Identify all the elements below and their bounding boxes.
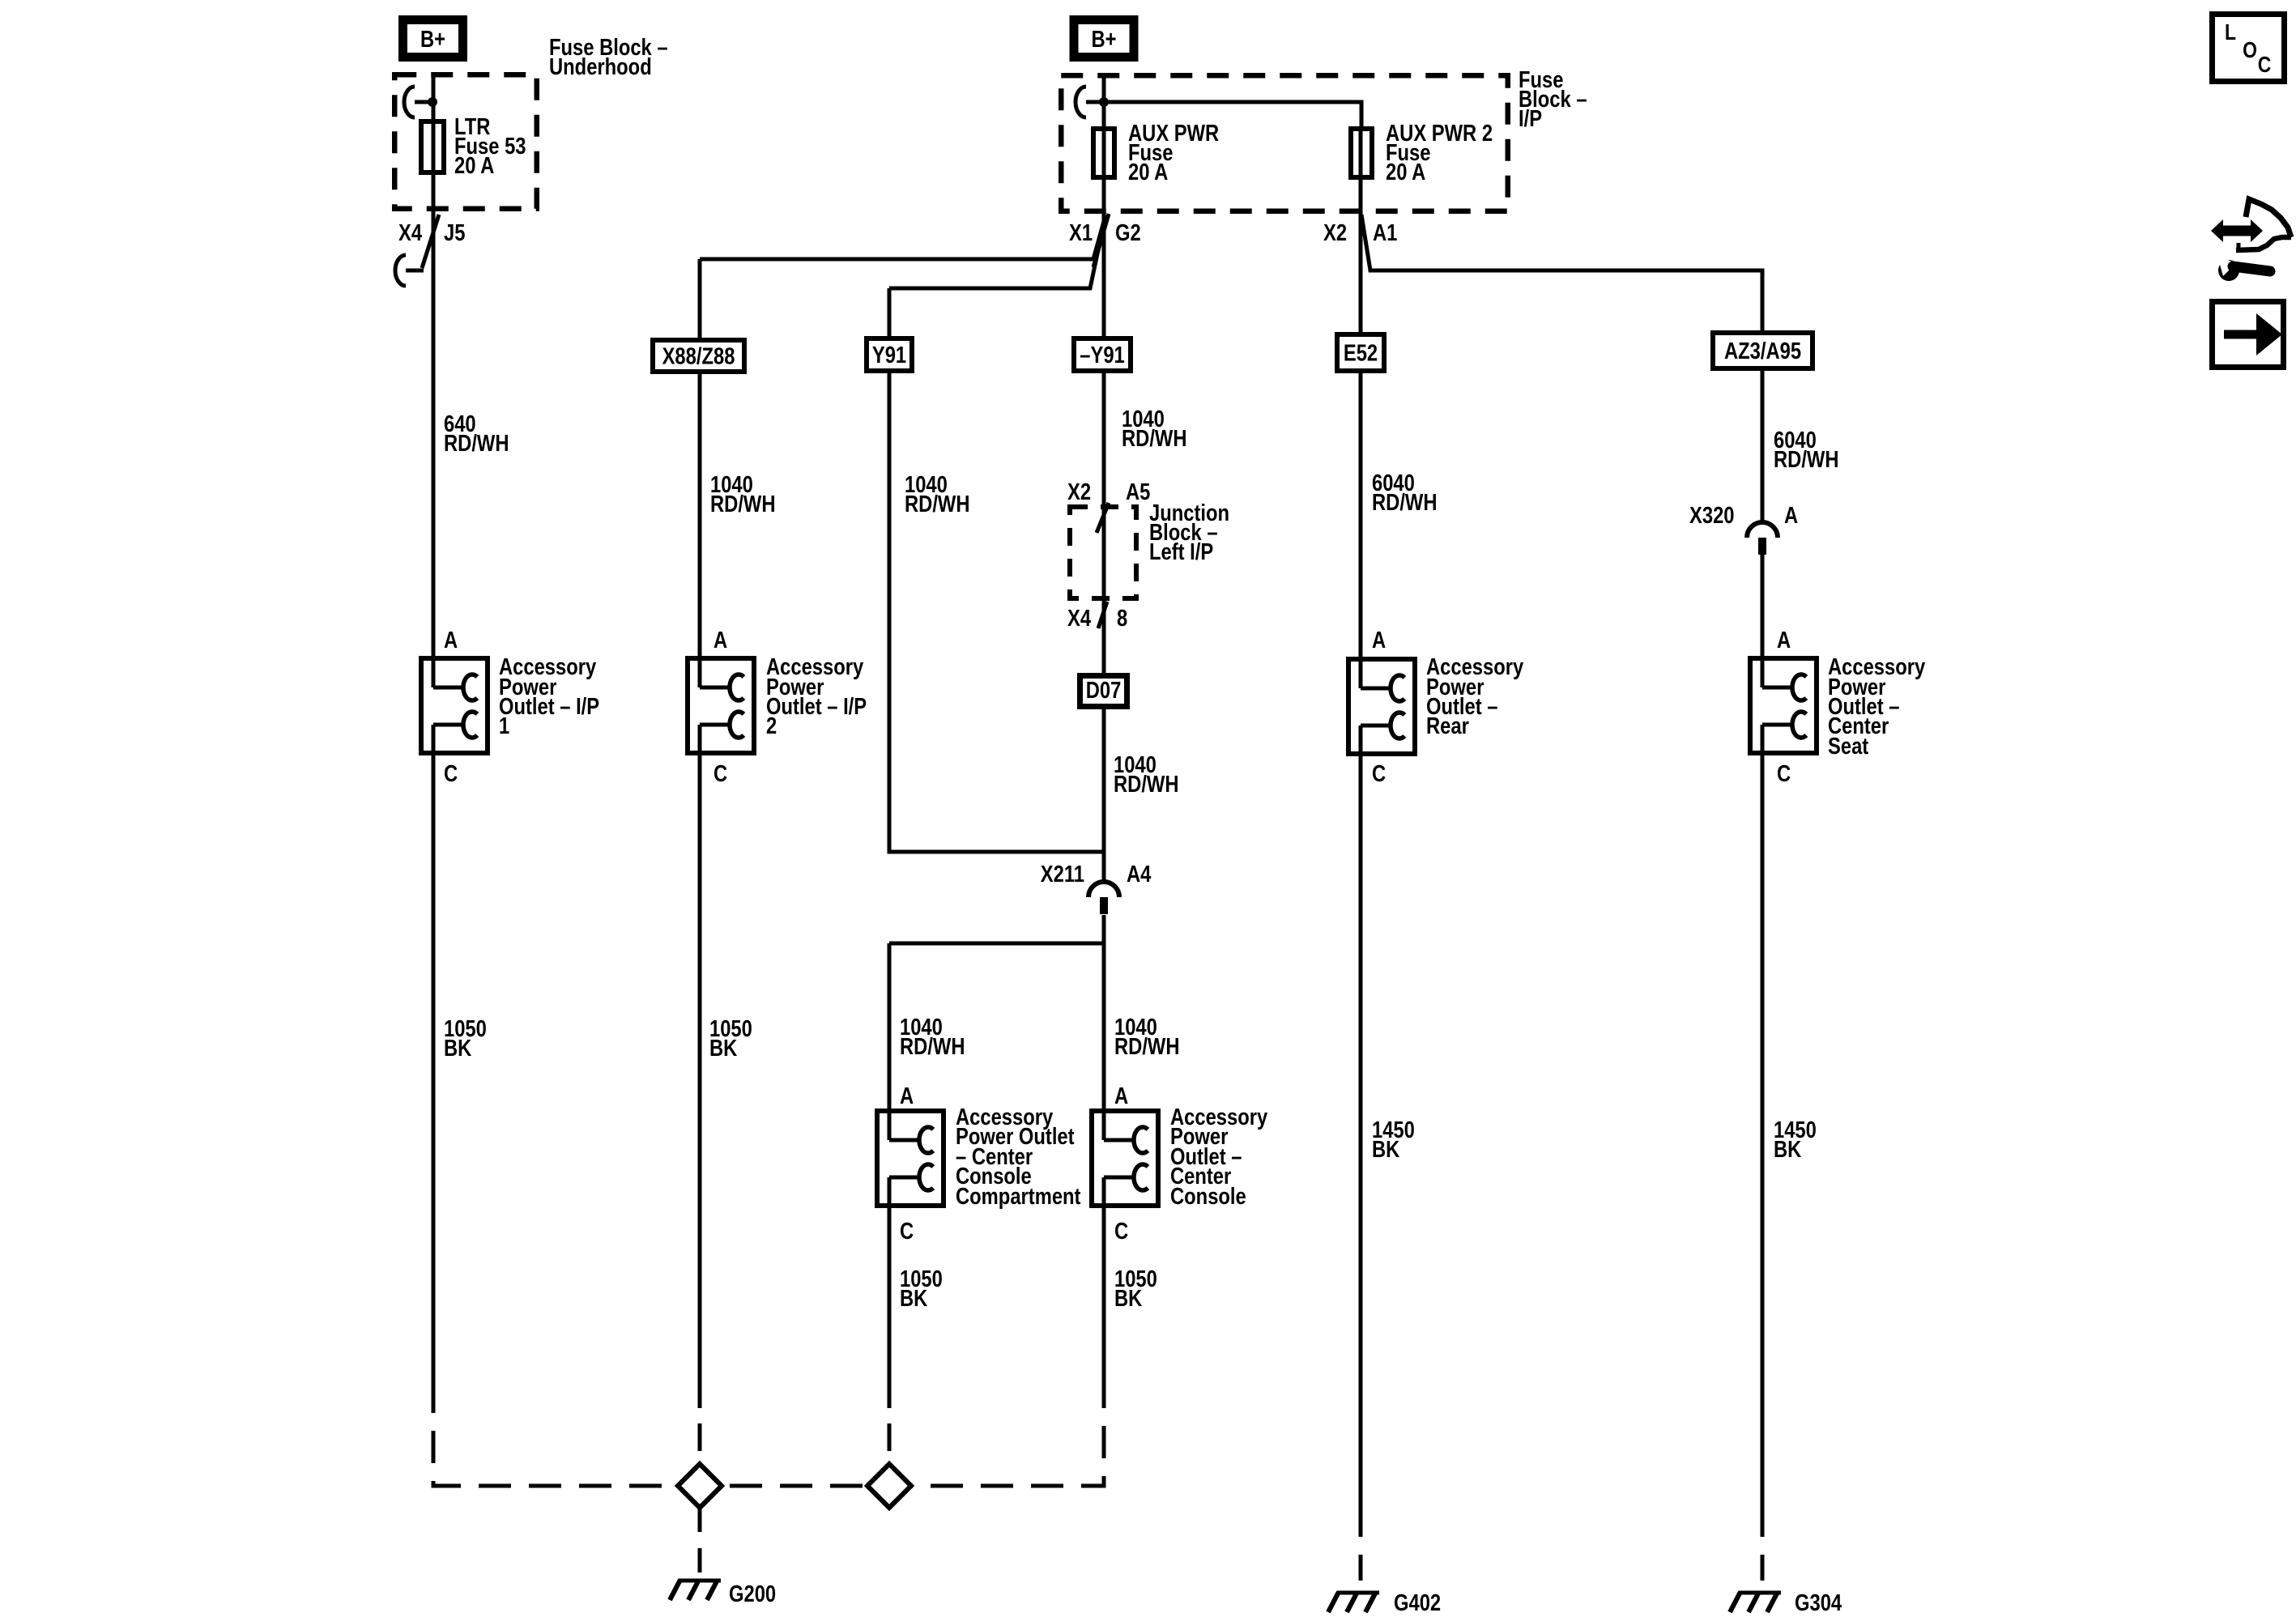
svg-text:20 A: 20 A	[1128, 159, 1168, 185]
svg-text:BK: BK	[709, 1035, 737, 1062]
svg-text:Seat: Seat	[1828, 733, 1868, 760]
svg-text:E52: E52	[1344, 339, 1378, 366]
svg-text:Console: Console	[1170, 1183, 1246, 1210]
svg-text:RD/WH: RD/WH	[1372, 489, 1438, 516]
svg-text:C: C	[1372, 760, 1386, 787]
svg-text:BK: BK	[1372, 1136, 1399, 1163]
svg-text:BK: BK	[900, 1285, 927, 1312]
svg-text:Underhood: Underhood	[549, 53, 652, 80]
svg-text:A4: A4	[1127, 861, 1152, 887]
svg-text:X88/Z88: X88/Z88	[662, 343, 735, 369]
svg-text:C: C	[1777, 760, 1791, 787]
svg-text:X2: X2	[1067, 479, 1091, 505]
svg-text:RD/WH: RD/WH	[1114, 1033, 1180, 1060]
svg-text:X320: X320	[1689, 502, 1734, 529]
svg-text:RD/WH: RD/WH	[900, 1033, 965, 1060]
svg-text:C: C	[900, 1218, 914, 1245]
svg-text:1: 1	[499, 713, 509, 739]
svg-text:X211: X211	[1041, 861, 1084, 887]
svg-text:X4: X4	[398, 219, 422, 246]
svg-text:A: A	[900, 1083, 914, 1109]
svg-text:G2: G2	[1115, 219, 1141, 246]
svg-text:A: A	[1114, 1083, 1128, 1109]
svg-text:A: A	[1784, 502, 1798, 529]
svg-text:RD/WH: RD/WH	[1774, 446, 1839, 473]
svg-text:X2: X2	[1323, 219, 1347, 246]
svg-text:A: A	[714, 627, 727, 653]
svg-text:RD/WH: RD/WH	[444, 430, 509, 457]
svg-text:A5: A5	[1126, 479, 1150, 505]
svg-text:G304: G304	[1795, 1589, 1842, 1616]
svg-text:X1: X1	[1069, 219, 1093, 246]
svg-text:Compartment: Compartment	[956, 1183, 1081, 1210]
svg-text:I/P: I/P	[1519, 105, 1542, 132]
svg-text:8: 8	[1117, 605, 1127, 632]
svg-text:B+: B+	[420, 26, 445, 53]
svg-text:BK: BK	[1774, 1136, 1801, 1163]
svg-text:–Y91: –Y91	[1080, 342, 1124, 368]
svg-text:A: A	[1372, 627, 1386, 653]
svg-text:D07: D07	[1086, 677, 1122, 704]
svg-text:Rear: Rear	[1426, 713, 1469, 739]
svg-text:BK: BK	[1114, 1285, 1142, 1312]
svg-text:C: C	[444, 760, 458, 787]
svg-text:20 A: 20 A	[1386, 159, 1425, 185]
svg-text:RD/WH: RD/WH	[905, 491, 970, 517]
svg-text:X4: X4	[1067, 605, 1091, 632]
svg-text:A: A	[444, 627, 458, 653]
svg-text:RD/WH: RD/WH	[710, 491, 776, 517]
svg-text:B+: B+	[1091, 26, 1116, 53]
svg-text:A: A	[1777, 627, 1791, 653]
svg-text:2: 2	[766, 713, 777, 739]
svg-text:O: O	[2243, 38, 2257, 63]
svg-text:C: C	[2258, 53, 2272, 78]
svg-text:G402: G402	[1394, 1589, 1441, 1616]
svg-text:C: C	[714, 760, 727, 787]
svg-text:Left I/P: Left I/P	[1149, 538, 1213, 565]
svg-text:BK: BK	[444, 1035, 471, 1062]
svg-text:RD/WH: RD/WH	[1114, 771, 1179, 798]
svg-text:A1: A1	[1373, 219, 1397, 246]
svg-text:RD/WH: RD/WH	[1122, 425, 1187, 452]
svg-text:20 A: 20 A	[454, 152, 494, 179]
svg-text:C: C	[1114, 1218, 1128, 1245]
svg-text:Y91: Y91	[872, 342, 906, 368]
svg-text:Outlet – I/P: Outlet – I/P	[499, 693, 599, 720]
svg-text:G200: G200	[729, 1581, 776, 1607]
svg-text:J5: J5	[444, 219, 465, 246]
svg-text:AZ3/A95: AZ3/A95	[1724, 338, 1801, 364]
svg-text:L: L	[2225, 20, 2236, 45]
svg-text:Outlet – I/P: Outlet – I/P	[766, 693, 867, 720]
